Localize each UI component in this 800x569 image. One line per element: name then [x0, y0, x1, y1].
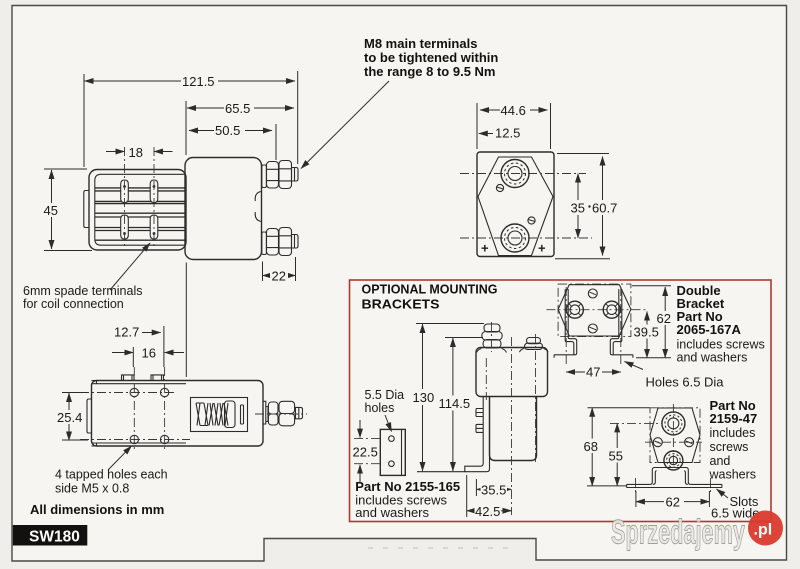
svg-text:washers: washers: [709, 468, 757, 482]
tapped hole 1: [130, 388, 138, 396]
dim 47: [566, 371, 621, 373]
top mounting tab 2: [151, 375, 164, 381]
ext left 62: [635, 491, 637, 507]
svg-text:65.5: 65.5: [225, 101, 250, 116]
svg-text:114.5: 114.5: [439, 396, 471, 411]
leader arrow spade note: [110, 243, 150, 290]
dim 44.6: [480, 109, 548, 111]
tapped hole 4: [160, 435, 168, 443]
dim 50.5: [189, 130, 272, 132]
svg-text:4 tapped holes each: 4 tapped holes each: [55, 468, 168, 482]
centerline left stud: [491, 322, 493, 352]
svg-text:25.4: 25.4: [57, 410, 82, 425]
ext line 35.5: [475, 479, 477, 496]
ext line top 25.4: [62, 392, 88, 394]
ext bottom 68/55: [587, 485, 627, 487]
coil left tab: [84, 191, 89, 228]
ref line top of 114.5: [445, 337, 483, 339]
centerline bracket bolts: [485, 358, 487, 400]
projection line from side view: [185, 263, 187, 378]
contactor outline dash-dot: [558, 284, 631, 337]
spade slot dots: [123, 185, 126, 188]
leader arrow M8 note: [301, 81, 389, 169]
spade centerline left: [124, 147, 126, 247]
bottom M8 terminal: nut 2: [279, 228, 292, 256]
small hole bottom: [588, 324, 597, 333]
dim 62: [664, 287, 666, 358]
main housing (lower): [490, 397, 537, 461]
svg-text:holes: holes: [365, 401, 395, 415]
ext line top of 45: [44, 168, 87, 170]
svg-text:121.5: 121.5: [182, 74, 215, 89]
contactor outline dash-dot: [650, 408, 700, 463]
top terminal knurl ring: [505, 163, 526, 184]
main centerline: [547, 309, 647, 311]
svg-text:Sprzedajemy: Sprzedajemy: [611, 514, 745, 552]
top M8 terminal: nut 2: [279, 161, 292, 189]
top M8 terminal: washer: [262, 165, 267, 188]
mounting hexagon: [650, 408, 700, 463]
right stud stack: [527, 338, 541, 344]
plunger: [225, 401, 236, 428]
inner plate bottom line: [92, 442, 187, 444]
svg-text:18: 18: [129, 145, 143, 160]
left tab: [87, 399, 92, 433]
bottom terminal circle outer: [501, 224, 529, 252]
centerline vertical: [672, 404, 674, 468]
spade terminal slot D (lower right): [150, 215, 158, 239]
bottom M8 terminal: stud tip: [292, 235, 299, 249]
slot centerline left: [565, 287, 567, 367]
svg-text:includes: includes: [710, 426, 756, 440]
bracket strip on contactor: [465, 397, 490, 472]
dim 12.5: [479, 133, 493, 135]
hole column centerline 1: [133, 367, 135, 452]
bottom bolt circle: [664, 451, 683, 470]
svg-text:47: 47: [586, 365, 600, 380]
leader arrow slots: [717, 489, 729, 498]
svg-text:All dimensions in mm: All dimensions in mm: [30, 502, 164, 517]
top M8 terminal: stud tip: [292, 168, 299, 182]
slot centerline right: [620, 287, 622, 367]
terminal nut small (top view): [268, 402, 278, 414]
svg-text:68: 68: [584, 439, 598, 454]
svg-text:to be tightened within: to be tightened within: [364, 50, 498, 65]
ref line top of 130: [416, 323, 484, 325]
ext top 62: [632, 285, 671, 287]
terminal tip (top view): [296, 407, 303, 418]
dim 35: [577, 174, 579, 239]
terminal neck (top view): [266, 407, 268, 422]
housing relief arc lower: [255, 212, 261, 222]
ext top 68: [588, 407, 651, 409]
ext right 62: [708, 491, 710, 507]
dim 55: [616, 423, 618, 486]
svg-text:and washers: and washers: [677, 351, 748, 365]
svg-text:45: 45: [44, 203, 58, 218]
dim 60.7: [602, 157, 604, 256]
svg-text:35: 35: [571, 201, 585, 216]
top terminal circle inner: [508, 167, 522, 181]
SW180 label: [13, 525, 88, 546]
svg-text:22.5: 22.5: [353, 445, 378, 460]
coil fins: [95, 188, 186, 240]
bracket plate: [380, 429, 405, 475]
svg-text:screws: screws: [710, 440, 749, 454]
bottom M8 terminal: washer: [262, 232, 267, 255]
dim 25.4: [68, 393, 70, 441]
plate hole lower: [389, 461, 395, 467]
dim 35.5: [476, 488, 511, 490]
svg-text:44.6: 44.6: [501, 103, 526, 118]
dim 130: [422, 324, 424, 471]
plate hole upper: [389, 436, 395, 442]
svg-text:the range 8 to 9.5 Nm: the range 8 to 9.5 Nm: [364, 64, 495, 79]
ext line left 44.6: [476, 103, 478, 149]
ext line right of 22: [295, 257, 297, 281]
right Z-bracket: [610, 289, 633, 358]
right bolt circle: [603, 301, 620, 318]
svg-text:OPTIONAL MOUNTING: OPTIONAL MOUNTING: [362, 282, 498, 297]
watermark Sprzedajemy.pl: [611, 511, 783, 552]
hole row centerline upper: [80, 392, 176, 394]
base line: [417, 471, 466, 473]
red box border: [350, 280, 772, 522]
svg-text:Holes 6.5 Dia: Holes 6.5 Dia: [646, 375, 725, 390]
svg-text:for coil connection: for coil connection: [23, 297, 124, 311]
coil housing outer shell: [89, 170, 186, 251]
ext line left of 121.5: [83, 74, 85, 167]
leader arrow holes: [625, 362, 644, 370]
ext 55 centerline: [610, 422, 662, 424]
dim 45: [51, 170, 53, 249]
svg-text:12.7: 12.7: [114, 325, 139, 340]
hat bracket: [627, 468, 722, 488]
ext line top 60.7: [557, 153, 609, 155]
main contact housing: [185, 158, 262, 260]
spade terminal slot C (lower left): [121, 215, 129, 239]
dim 65.5: [187, 107, 294, 109]
svg-text:12.5: 12.5: [495, 126, 520, 141]
hole centerline upper: [354, 438, 380, 440]
svg-text:130: 130: [413, 390, 435, 405]
svg-text:+: +: [481, 241, 489, 256]
leader arrow tapped holes: [108, 446, 132, 470]
top view body outline: [92, 381, 264, 447]
ext line left of 65.5/50.5: [185, 101, 187, 155]
bracket bolt upper: [476, 409, 483, 417]
dim 39.5: [646, 312, 648, 358]
ext line 42.5: [466, 475, 468, 517]
body right notch: [263, 401, 266, 424]
svg-text:BRACKETS: BRACKETS: [362, 297, 440, 312]
hole centerline lower: [354, 463, 380, 465]
svg-text:SW180: SW180: [29, 529, 80, 546]
svg-text:6mm spade terminals: 6mm spade terminals: [23, 284, 143, 298]
side hole left: [653, 438, 662, 447]
coil housing inner shell: [95, 174, 186, 245]
spring cavity: [191, 398, 248, 432]
bottom M8 terminal: nut 1: [267, 229, 279, 256]
bottom terminal knurl ring: [505, 228, 526, 249]
svg-text:55: 55: [609, 449, 623, 464]
top-left corner notch: [92, 381, 97, 447]
top M8 terminal: nut 1: [267, 162, 279, 189]
left Z-bracket: [554, 289, 577, 358]
svg-text:side M5 x 0.8: side M5 x 0.8: [55, 482, 129, 496]
svg-text:includes screws: includes screws: [677, 338, 765, 352]
svg-text:35.5: 35.5: [481, 483, 506, 498]
slot centerline right foot: [710, 478, 712, 494]
svg-text:2159-47: 2159-47: [710, 411, 758, 426]
svg-text:2065-167A: 2065-167A: [677, 322, 742, 337]
ext line bottom 25.4: [62, 439, 88, 441]
housing relief arc upper: [255, 192, 261, 202]
ext bottom 62/39.5: [636, 357, 671, 359]
slot centerline left foot: [635, 478, 637, 494]
tapped hole 3: [130, 435, 138, 443]
centerline right unit: [535, 334, 537, 465]
svg-text:+: +: [538, 241, 546, 256]
dim 121.5: [85, 80, 296, 82]
small screw lower: [528, 217, 535, 224]
spade terminal slot A (upper left): [121, 180, 129, 203]
coil end housing (upper): [476, 348, 548, 397]
dim 18: [106, 151, 125, 153]
centerline between units: [511, 337, 513, 515]
svg-text:and washers: and washers: [355, 505, 429, 520]
inner plate top line: [92, 383, 187, 385]
spade terminal slot B (upper right): [150, 180, 158, 203]
top mounting tab 1: [122, 375, 135, 381]
end view body: [477, 152, 554, 257]
hole row centerline lower: [80, 439, 190, 441]
svg-text:and: and: [710, 454, 731, 468]
top bolt circle: [662, 412, 685, 435]
spade centerline right: [153, 147, 155, 247]
left stud stack: [484, 324, 500, 332]
plunger stop bars: [241, 405, 244, 424]
top terminal circle outer: [501, 160, 529, 188]
centerline small holes: [645, 441, 702, 443]
ext line right of 121.5/65.5: [297, 71, 299, 164]
centerline bottom circle: [460, 237, 592, 239]
dim 62: [636, 501, 710, 503]
ref line left of 16: [132, 347, 134, 367]
side hole right: [685, 438, 694, 447]
bracket bolt lower: [476, 424, 483, 432]
plate edge line: [401, 429, 403, 475]
spring coils: [196, 403, 228, 426]
small screw upper: [496, 184, 503, 191]
ext line bottom 60.7: [555, 258, 610, 260]
svg-text:16: 16: [142, 346, 156, 361]
ref line for 12.7/16: [163, 326, 165, 367]
dim 16: [112, 352, 133, 354]
small hole top: [588, 289, 597, 298]
svg-text:50.5: 50.5: [215, 123, 240, 138]
svg-text:5.5 Dia: 5.5 Dia: [365, 388, 405, 402]
svg-text:.pl: .pl: [754, 522, 773, 539]
mounting hexagon: [478, 157, 553, 256]
dim 68: [591, 408, 593, 486]
centerline top circle: [460, 173, 586, 175]
svg-text:60.7: 60.7: [592, 201, 617, 216]
svg-text:39.5: 39.5: [634, 325, 659, 340]
ext line right of 50.5: [275, 124, 277, 160]
svg-text:62: 62: [666, 495, 680, 510]
bottom terminal circle inner: [508, 231, 522, 245]
svg-text:M8 main terminals: M8 main terminals: [364, 36, 477, 51]
dim 22: [263, 275, 296, 277]
left bolt circle: [566, 301, 583, 318]
terminal centerline (top view): [255, 413, 307, 415]
dim 42.5: [467, 510, 512, 512]
hole column centerline 2: [164, 367, 166, 452]
dim 114.5: [452, 338, 454, 471]
dim 22.5: [359, 420, 361, 438]
ext line right 44.6: [550, 103, 552, 149]
faint scan marks bottom center: [368, 547, 518, 549]
svg-text:22: 22: [272, 269, 286, 284]
terminal nut large (top view): [279, 401, 295, 413]
cap scallop shoulders: [477, 349, 549, 353]
ext line bottom of 45: [44, 250, 92, 252]
tapped hole 2: [160, 388, 168, 396]
ext line left of 22: [262, 262, 264, 282]
leader arrow to hole: [385, 415, 392, 432]
svg-text:42.5: 42.5: [475, 504, 500, 519]
mounting hexagon: [558, 285, 631, 336]
